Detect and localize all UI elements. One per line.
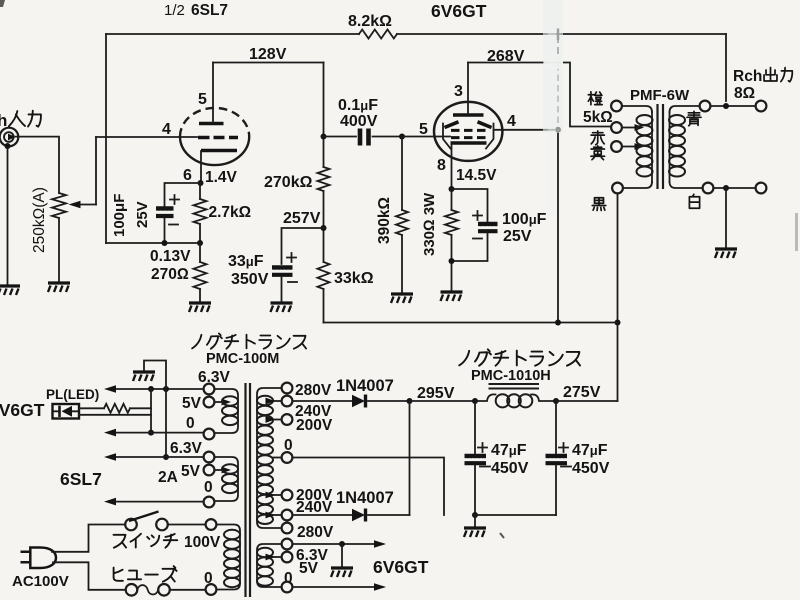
svg-text:6.3V: 6.3V <box>198 369 231 386</box>
pilot LED symbol <box>54 410 78 412</box>
6V6 beam wedge left <box>445 122 459 128</box>
wire: plug lower lead to fuse <box>53 562 126 590</box>
capacitor 33uF minus sign <box>288 281 297 283</box>
wire: B+ bus horizontal <box>324 322 618 324</box>
junction LED riser top <box>148 386 154 392</box>
wire: heater 0 line to arrow <box>293 586 375 588</box>
wire: heater line to arrow <box>293 543 375 545</box>
svg-text:6: 6 <box>183 167 192 184</box>
kanji nyuu (input) <box>9 111 25 126</box>
wire: feedback vertical x=106 down to cathode node <box>105 34 107 243</box>
PT right terminal 0 (heater) <box>282 582 293 593</box>
PT HV 0 tap wire <box>273 457 282 459</box>
OPT secondary bottom wire <box>670 182 703 188</box>
tube 6SL7 envelope dashed top arc <box>180 108 249 137</box>
wire: cathode bypass branch top <box>452 189 488 221</box>
junction screen node <box>555 127 561 133</box>
PT 6.3V tap arrow (right heater) <box>273 556 282 558</box>
6V6 screen grid dashes <box>451 129 486 132</box>
kanji ryoku (power) <box>28 111 41 127</box>
OPT primary top wire <box>622 106 652 112</box>
wire: 270Ohm to ground <box>199 289 201 302</box>
wire: plate line 128V <box>213 62 324 64</box>
svg-text:33μF: 33μF <box>228 253 264 270</box>
choke core lines <box>489 384 540 389</box>
PT left terminal 0 (w2) <box>204 497 215 508</box>
resistor 2.7kOhm <box>194 199 207 224</box>
capacitor 47uF A plus sign <box>478 443 487 452</box>
capacitor 100uF/25V (6V6) plus sign <box>473 211 482 220</box>
kanji label red (aka) <box>591 131 604 145</box>
wire: LED bottom lead <box>79 414 151 416</box>
6V6 beam wedge right <box>478 122 492 128</box>
svg-text:390kΩ: 390kΩ <box>376 197 393 244</box>
PT left terminal 0 (w1) <box>204 429 215 440</box>
svg-text:3: 3 <box>454 83 463 100</box>
svg-text:6SL7: 6SL7 <box>191 2 228 19</box>
junction ground riser bottom <box>163 454 169 460</box>
svg-text:350V: 350V <box>231 271 269 288</box>
svg-text:1.4V: 1.4V <box>205 169 238 186</box>
svg-text:240V: 240V <box>296 499 333 516</box>
6SL7 grid dashes <box>198 136 238 139</box>
wire: plate bus x=323.5 down <box>323 63 325 168</box>
OPT yellow tap wire with arrow <box>622 146 634 148</box>
resistor 8.2kOhm (feedback) <box>359 30 397 39</box>
choke winding <box>475 394 496 401</box>
ground (6V6 heater) <box>331 568 353 577</box>
OPT terminal yellow <box>611 141 622 152</box>
OPT secondary coil loops <box>669 115 685 177</box>
wire: grid from wiper to tube <box>96 136 197 138</box>
svg-text:6V6GT: 6V6GT <box>431 1 487 21</box>
wire: bypass cap bottom <box>452 233 488 261</box>
output terminal 8ohm hot <box>756 101 767 112</box>
svg-text:4: 4 <box>162 121 171 138</box>
ground (33uF) <box>271 303 293 312</box>
svg-text:0: 0 <box>204 570 213 587</box>
wire: heater ground stub <box>341 544 343 567</box>
junction choke input / 47uF A <box>472 398 478 404</box>
wire: cathode to bypass cap <box>165 183 201 206</box>
svg-text:1N4007: 1N4007 <box>336 377 394 395</box>
wire: cathode node down <box>451 189 453 210</box>
svg-text:25V: 25V <box>134 201 151 228</box>
wire: resistor to riser <box>130 407 151 409</box>
capacitor 100uF (6V6) minus sign <box>473 238 482 240</box>
wire: 330 to ground <box>451 235 453 291</box>
wire: pot bottom to ground <box>58 218 60 282</box>
PT left terminal 5V (w2) <box>204 465 215 476</box>
junction screen/B+ bus <box>555 320 561 326</box>
wire: grid leak down <box>401 137 403 211</box>
svg-text:257V: 257V <box>283 210 321 227</box>
output terminal white side <box>703 183 714 194</box>
PT winding2 heater coil <box>215 457 239 501</box>
svg-text:5V: 5V <box>181 463 201 480</box>
input jack inner ring <box>4 132 14 142</box>
junction secondary cold <box>723 185 729 191</box>
6V6 screen wire pin4 to right <box>494 129 558 131</box>
svg-text:33kΩ: 33kΩ <box>334 270 374 287</box>
PT w1 5V tap arrow <box>215 401 222 403</box>
svg-text:280V: 280V <box>295 382 332 399</box>
capacitor 47uF B lead <box>555 401 557 453</box>
PT left terminal 0 (primary) <box>206 584 217 595</box>
kanji label blue (ao) <box>687 111 701 125</box>
PT 240V tap arrow top <box>273 400 282 402</box>
tick artifact on top bus <box>557 29 559 41</box>
svg-text:280V: 280V <box>297 524 334 541</box>
svg-text:450V: 450V <box>491 460 529 477</box>
PT HV secondary coil <box>257 388 282 528</box>
fuse element <box>137 585 158 594</box>
wire: 275V to riser <box>556 400 618 402</box>
fuse contact left <box>126 584 138 596</box>
svg-text:5: 5 <box>198 91 207 108</box>
junction heater ground <box>339 541 345 547</box>
resistor 330Ohm 3W <box>445 210 458 235</box>
ground (speaker return) <box>715 249 737 258</box>
capacitor 0.1uF 400V plates <box>360 129 369 146</box>
output terminal 8ohm cold <box>756 183 767 194</box>
label fuse (hyuuzu) katakana <box>114 566 177 582</box>
resistor 390kOhm <box>396 210 408 235</box>
upper heater ground L-wire <box>144 361 166 390</box>
svg-text:47μF: 47μF <box>491 442 527 459</box>
capacitor 47uF A bottom lead <box>474 465 476 515</box>
svg-text:128V: 128V <box>249 46 287 63</box>
svg-text:2A: 2A <box>158 469 178 486</box>
pilot LED box <box>53 404 80 419</box>
ground (heater winding) <box>133 372 155 381</box>
capacitor 100uF plates <box>156 209 174 217</box>
capacitor 100uF (6V6) plates <box>478 224 498 231</box>
6SL7 plate lead pin5 <box>212 63 214 123</box>
svg-text:270Ω: 270Ω <box>151 266 189 283</box>
svg-text:0: 0 <box>284 437 293 454</box>
wire: 6V6 plate to OPT red tap <box>468 63 611 127</box>
junction 6V6 grid node <box>399 134 405 140</box>
wire: 2.7k to 0.13V node <box>199 224 201 243</box>
svg-text:6SL7: 6SL7 <box>60 469 102 489</box>
junction 47uF A bottom <box>472 512 478 518</box>
PT right terminal 240V top <box>282 396 293 407</box>
wire: 257V node left to 33uF <box>282 228 324 264</box>
6V6 beam plate rail right <box>486 124 494 149</box>
kanji label white (shiro) <box>689 194 699 208</box>
svg-text:0.1μF: 0.1μF <box>338 97 378 114</box>
svg-text:1/2: 1/2 <box>164 2 185 19</box>
junction black/B+ bus <box>615 320 621 326</box>
PT 200V tap arrow bottom <box>273 494 282 496</box>
switch lever <box>129 512 159 522</box>
svg-text:0.13V: 0.13V <box>150 248 191 265</box>
input jack tip contact <box>8 134 16 141</box>
heater arrow line 4 (0V to 6SL7) <box>114 501 204 503</box>
svg-text:PMC-1010H: PMC-1010H <box>471 368 551 384</box>
PT right terminal heater top <box>282 539 293 550</box>
svg-text:6V6GT: 6V6GT <box>0 400 45 420</box>
svg-text:200V: 200V <box>296 417 333 434</box>
junction coupling node <box>321 134 327 140</box>
svg-text:0: 0 <box>186 415 195 432</box>
6V6 plate bar <box>453 113 484 117</box>
capacitor 100uF minus sign <box>169 224 178 226</box>
junction at jack sleeve <box>5 143 11 149</box>
wire: faint erased screen riser (scan streak) <box>557 36 559 60</box>
PT winding1 heater coil <box>215 389 239 433</box>
capacitor 47uF B bottom lead <box>555 465 557 515</box>
wire: jack sleeve ground lead <box>7 146 9 285</box>
svg-text:4: 4 <box>507 113 516 130</box>
OPT secondary spine <box>669 112 671 182</box>
wire: switch to 100V terminal <box>168 524 205 526</box>
wire: grid node to 6V6 <box>402 136 450 138</box>
tube 6V6GT envelope <box>434 102 502 161</box>
6V6 beam plate rail left <box>443 124 451 149</box>
input jack outer ring <box>0 128 18 147</box>
PT right terminal 6.3V (heater) <box>282 552 293 563</box>
svg-text:450V: 450V <box>572 460 610 477</box>
OPT red tap wire with arrow <box>622 127 634 129</box>
svg-text:275V: 275V <box>563 384 601 401</box>
PT left terminal 5V (w1) <box>204 397 215 408</box>
PT right terminal 280V top <box>282 383 293 394</box>
junction 0.13V node <box>197 240 203 246</box>
svg-text:5V: 5V <box>299 560 319 577</box>
OPT primary spine <box>651 112 653 182</box>
wire: ground riser continues <box>165 389 167 457</box>
PT 240V tap arrow bottom <box>273 514 282 516</box>
kanji ryoku (output) <box>781 68 792 82</box>
wire: cap bottoms tie <box>475 514 556 516</box>
capacitor 33uF plates <box>272 268 293 275</box>
wire: black lead down to B+ bus and choke <box>617 194 619 402</box>
capacitor 33uF/350V plus sign <box>287 253 296 262</box>
svg-text:PMC-100M: PMC-100M <box>206 351 279 367</box>
tube 6SL7 envelope solid bottom arc <box>180 137 249 166</box>
svg-text:25V: 25V <box>503 228 532 245</box>
PT right terminal 200V top <box>282 414 293 425</box>
PT right terminal 280V bottom <box>282 523 293 534</box>
wire: cap bottom to 0.13V rail <box>164 218 166 243</box>
wire: screen node down to B+ bus <box>557 130 559 323</box>
svg-text:330Ω 3W: 330Ω 3W <box>421 192 438 256</box>
OPT terminal red <box>611 122 622 133</box>
PT left terminal 100V <box>206 519 217 530</box>
PT core lamination lines <box>246 383 251 597</box>
junction 257V node <box>321 225 327 231</box>
rectifier diode 1N4007 (lower) <box>293 514 353 516</box>
ground (270 Ohm) <box>189 303 211 312</box>
rectifier diode 1N4007 (upper) <box>293 400 353 402</box>
capacitor 100uF/25V cathode bypass : plus sign <box>170 195 179 204</box>
label switch (suicchi) katakana <box>114 534 178 548</box>
svg-text:14.5V: 14.5V <box>456 167 497 184</box>
svg-text:6V6GT: 6V6GT <box>373 557 429 577</box>
OPT primary coil loops <box>637 115 653 177</box>
wire: PSU ground stub <box>474 515 476 527</box>
svg-text:AC100V: AC100V <box>12 573 69 590</box>
PT right terminal 240V bottom <box>282 510 293 521</box>
svg-text:8: 8 <box>437 157 446 174</box>
junction LED riser bottom <box>148 430 154 436</box>
wire: 390k to ground <box>401 235 403 293</box>
resistor 270Ohm <box>194 262 207 289</box>
svg-text:400V: 400V <box>340 113 378 130</box>
svg-text:47μF: 47μF <box>572 442 608 459</box>
OPT primary bottom wire <box>623 182 652 188</box>
kanji label black (kuro) <box>592 198 606 211</box>
svg-text:100μF: 100μF <box>502 211 547 228</box>
6V6 plate lead pin3 <box>467 63 469 114</box>
svg-text:8.2kΩ: 8.2kΩ <box>348 13 392 30</box>
wire: 33uF to ground <box>281 277 283 302</box>
PT primary 100V coil <box>217 525 241 590</box>
OPT secondary top wire <box>670 106 700 112</box>
kanji label yellow (ki) <box>591 146 605 160</box>
wire: feedback top bus y=34 left segment <box>106 33 359 35</box>
heater arrow line 2 (0V return) <box>114 432 204 434</box>
OPT terminal black <box>612 183 623 194</box>
wire: 0.13V node down <box>199 243 201 262</box>
switch contact right <box>156 519 168 531</box>
heater arrow line 3 (6.3V to 6SL7) <box>114 456 204 458</box>
scan streak artifact <box>543 0 563 133</box>
pot wiper arrow <box>78 204 96 206</box>
junction choke output / 47uF B <box>553 398 559 404</box>
wire: plug upper lead to switch <box>52 525 125 552</box>
svg-text:100μF: 100μF <box>111 194 128 237</box>
ground (PSU) <box>464 528 486 537</box>
kanji label orange (dai-dai) <box>588 92 602 105</box>
PT right terminal 200V bottom <box>282 490 293 501</box>
wire: 295V rail to choke <box>410 400 476 402</box>
ground (330 Ohm) <box>441 292 463 301</box>
wire: secondary cold to terminal <box>714 187 756 189</box>
svg-text:2.7kΩ: 2.7kΩ <box>209 204 252 221</box>
junction bypass bottom <box>449 258 455 264</box>
junction ground riser top <box>163 386 169 392</box>
svg-text:295V: 295V <box>417 385 455 402</box>
right edge smudge <box>795 213 798 251</box>
PT right terminal 0 (HV) <box>282 452 293 463</box>
label Noguchi Trans (PMC-1010H) katakana <box>459 349 580 365</box>
ground (jack) <box>0 286 20 295</box>
junction 6V6 cathode node <box>449 186 455 192</box>
PT lower-right 6.3V winding top wire <box>257 544 282 587</box>
wire: LED riser <box>150 389 152 433</box>
switch contact left <box>125 519 137 531</box>
wire: coupling node to 0.1uF <box>324 136 357 138</box>
wire: feedback horizontal into 0.13V node <box>106 242 200 244</box>
6SL7 cathode bar <box>201 149 237 152</box>
wire: lower rectifier riser to 295V <box>409 401 411 515</box>
svg-text:Rch: Rch <box>733 68 762 85</box>
output terminal blue side <box>700 101 711 112</box>
ground (pot) <box>48 283 70 292</box>
potentiometer 250kOhm(A) <box>52 193 66 218</box>
svg-text:5V: 5V <box>182 395 202 412</box>
ground (390k) <box>391 294 413 303</box>
PT left terminal 6.3V (w1) <box>204 384 215 395</box>
capacitor 47uF B plus sign <box>559 443 568 452</box>
capacitor 47uF A plates <box>465 456 487 463</box>
svg-text:0: 0 <box>204 479 213 496</box>
heater arrow line 1 (6.3V to 6V6GT) <box>114 388 204 390</box>
wire: 33k down to B+ bus <box>323 289 325 323</box>
6SL7 plate bar <box>199 122 224 126</box>
capacitor 47uF A minus sign <box>480 466 490 468</box>
svg-text:100V: 100V <box>184 534 221 551</box>
wire: 0.1uF to 6V6 grid node <box>373 136 403 138</box>
OPT terminal orange <box>611 101 622 112</box>
kanji shutsu (out) <box>764 67 777 81</box>
svg-text:250kΩ(A): 250kΩ(A) <box>31 187 48 253</box>
svg-text:PL(LED): PL(LED) <box>46 387 99 402</box>
capacitor 47uF B minus sign <box>561 466 571 468</box>
junction cap/feedback node <box>162 240 168 246</box>
PT w2 5V tap arrow <box>215 469 222 471</box>
wire: cathode node down to 2.7k <box>199 183 201 199</box>
6V6 control grid dashes <box>451 136 486 139</box>
wire: secondary hot to output <box>711 105 756 107</box>
svg-text:6.3V: 6.3V <box>170 440 203 457</box>
wire: fuse to 0 terminal <box>170 589 205 591</box>
6V6 cathode lead pin8 <box>451 144 453 189</box>
capacitor 47uF A lead <box>474 401 476 453</box>
wire: jack to volume pot <box>16 137 59 193</box>
6SL7 cathode lead pin6 <box>200 151 202 183</box>
6V6 cathode bar <box>451 141 487 145</box>
PT 200V tap arrow top <box>273 419 282 421</box>
scan corner mark <box>0 0 5 7</box>
scan speck <box>500 533 504 538</box>
OPT core lamination lines <box>658 104 664 189</box>
PT left terminal 6.3V (w2) <box>204 452 215 463</box>
svg-text:PMF-6W: PMF-6W <box>630 87 690 104</box>
wire: HV 0 return <box>293 458 445 516</box>
resistor (LED dropper) <box>104 404 130 413</box>
resistor 270kOhm <box>318 167 330 191</box>
mains plug prongs <box>21 552 31 563</box>
resistor 33kOhm <box>318 262 330 289</box>
svg-text:5: 5 <box>419 121 428 138</box>
svg-text:270kΩ: 270kΩ <box>264 174 313 191</box>
svg-text:1N4007: 1N4007 <box>336 489 394 507</box>
wire: feedback top bus y=34 right segment <box>397 33 726 35</box>
svg-text:5kΩ: 5kΩ <box>583 109 613 126</box>
junction cathode node <box>198 180 204 186</box>
junction output/feedback <box>723 103 729 109</box>
svg-text:8Ω: 8Ω <box>734 85 755 102</box>
mains plug body <box>30 548 56 569</box>
junction 295V node <box>407 398 413 404</box>
wire: wiper up to grid line <box>95 137 97 205</box>
wire: top bus corner down to output terminal <box>725 34 727 101</box>
wire: 270k to 257V node <box>323 191 325 262</box>
wire: secondary cold to ground <box>725 188 727 248</box>
capacitor 47uF B plates <box>546 456 568 463</box>
label Noguchi Trans (PMC-100M) katakana <box>192 333 306 348</box>
fuse contact right <box>158 584 170 596</box>
wire: LED top lead to resistor <box>79 407 104 409</box>
